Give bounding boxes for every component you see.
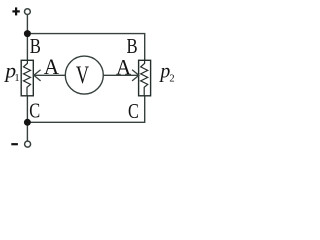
svg-text:A: A [116, 55, 132, 80]
svg-text:C: C [128, 100, 139, 123]
svg-text:1: 1 [14, 73, 19, 84]
svg-text:2: 2 [169, 74, 174, 85]
svg-text:V: V [76, 61, 89, 88]
svg-text:C: C [29, 100, 40, 123]
svg-text:A: A [44, 55, 60, 80]
svg-text:B: B [30, 35, 41, 58]
